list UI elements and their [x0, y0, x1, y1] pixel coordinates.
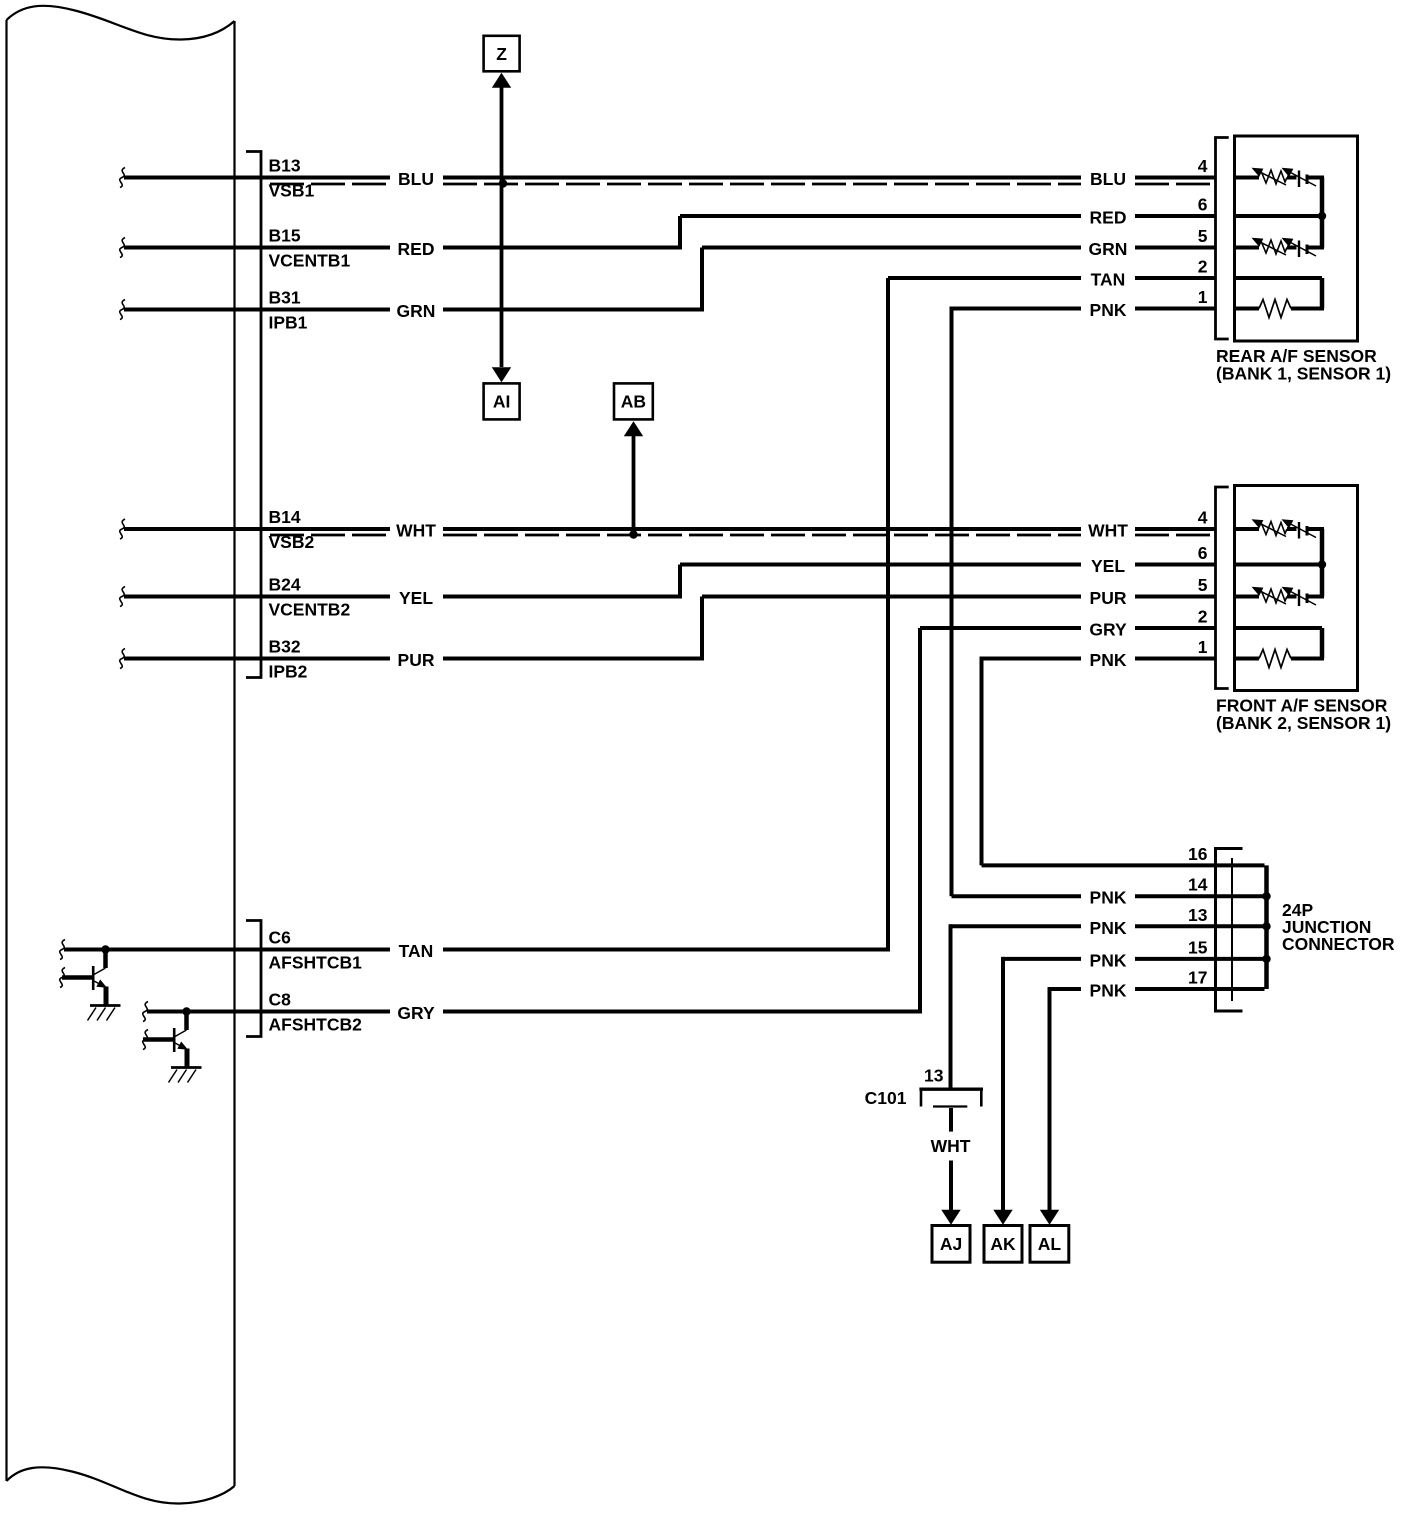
- connector box AL: [1030, 1226, 1069, 1263]
- svg-text:5: 5: [1198, 226, 1208, 246]
- internal bus pin4-pin5: [1320, 529, 1325, 597]
- heater link pin2-pin1: [1320, 628, 1325, 659]
- svg-text:AFSHTCB2: AFSHTCB2: [269, 1015, 363, 1035]
- wire B15 VCENTB1 RED (ECM to rear sensor pin 6): [120, 216, 1215, 258]
- wire C8 AFSHTCB2 GRY (ECM to front sensor pin 2): [143, 628, 1215, 1022]
- wire pin 6: [1235, 214, 1323, 218]
- svg-text:VCENTB1: VCENTB1: [269, 251, 351, 271]
- wire colour labels (component side): [1088, 169, 1128, 1001]
- svg-text:AJ: AJ: [940, 1234, 962, 1254]
- junction dot pin 14: [1262, 892, 1270, 900]
- wire pin 6: [1235, 563, 1323, 567]
- junction dot pin 15: [1262, 955, 1270, 963]
- svg-text:PNK: PNK: [1090, 981, 1127, 1001]
- wire to connectors Z and AI (BLU splice): [492, 73, 511, 383]
- sensor box: [1235, 486, 1358, 691]
- svg-text:PUR: PUR: [1090, 588, 1127, 608]
- svg-text:2: 2: [1198, 257, 1208, 277]
- svg-text:TAN: TAN: [399, 941, 434, 961]
- svg-text:VSB1: VSB1: [269, 181, 315, 201]
- svg-text:CONNECTOR: CONNECTOR: [1282, 934, 1395, 954]
- wire B24 VCENTB2 YEL (ECM to front sensor pin 6): [120, 565, 1215, 607]
- svg-text:AK: AK: [990, 1234, 1016, 1254]
- svg-text:15: 15: [1188, 937, 1208, 957]
- svg-text:2: 2: [1198, 607, 1208, 627]
- pin numbers: [1198, 156, 1208, 307]
- shield dashed line BLU: [270, 183, 390, 186]
- svg-text:4: 4: [1198, 508, 1208, 528]
- svg-text:PNK: PNK: [1090, 300, 1127, 320]
- svg-text:AB: AB: [621, 392, 646, 412]
- svg-text:PNK: PNK: [1090, 888, 1127, 908]
- wire PNK rear sensor pin 1 to junction pin 14: [952, 307, 1265, 897]
- wire pin 2: [1235, 276, 1323, 280]
- wire PNK junction pin 17 to AL: [1040, 987, 1265, 1225]
- splice dot on BLU shield: [499, 179, 507, 187]
- 24P junction connector bracket: [1216, 849, 1243, 1012]
- svg-text:B13: B13: [269, 156, 301, 176]
- sensing cell pin 4: [1235, 515, 1325, 538]
- heater resistor pin 1: [1235, 300, 1325, 318]
- svg-text:6: 6: [1198, 195, 1208, 215]
- connector box AI: [484, 383, 520, 419]
- connector box AJ: [932, 1226, 970, 1263]
- svg-text:GRN: GRN: [397, 301, 436, 321]
- svg-text:PNK: PNK: [1090, 918, 1127, 938]
- sensor connector bracket: [1216, 138, 1229, 340]
- svg-text:(BANK 2, SENSOR 1): (BANK 2, SENSOR 1): [1216, 713, 1391, 733]
- svg-text:BLU: BLU: [398, 169, 434, 189]
- connector box AK: [984, 1226, 1022, 1263]
- svg-text:VSB2: VSB2: [269, 532, 315, 552]
- svg-text:B32: B32: [269, 637, 301, 657]
- wire B32 IPB2 PUR (ECM to front sensor pin 5): [120, 597, 1215, 669]
- svg-text:16: 16: [1188, 844, 1208, 864]
- sensing cell pin 5: [1235, 583, 1325, 606]
- svg-text:AL: AL: [1038, 1234, 1062, 1254]
- svg-text:TAN: TAN: [1091, 270, 1126, 290]
- ECM pin labels: [269, 156, 363, 1035]
- junction dot pin 13: [1262, 922, 1270, 930]
- svg-text:WHT: WHT: [1088, 521, 1128, 541]
- svg-text:14: 14: [1188, 875, 1208, 895]
- svg-text:PNK: PNK: [1090, 650, 1127, 670]
- wire colour labels (ECM side): [396, 169, 436, 1023]
- wire B13 VSB1 BLU (ECM to rear sensor pin 4): [120, 168, 1215, 188]
- shield dashed line WHT: [270, 534, 390, 537]
- label 24P JUNCTION CONNECTOR: [1282, 900, 1395, 954]
- junction dot pin 6: [1318, 560, 1326, 568]
- connector box AB: [614, 383, 653, 419]
- wire to connector AB (WHT splice): [624, 421, 643, 539]
- svg-text:5: 5: [1198, 575, 1208, 595]
- sensor connector bracket: [1216, 487, 1229, 689]
- svg-text:WHT: WHT: [931, 1136, 971, 1156]
- svg-text:B24: B24: [269, 575, 301, 595]
- sensing cell pin 4: [1235, 164, 1325, 187]
- wire B31 IPB1 GRN (ECM to rear sensor pin 5): [120, 248, 1215, 320]
- svg-text:B31: B31: [269, 288, 301, 308]
- pin numbers: [1198, 508, 1208, 658]
- wire PNK junction pin 15 to AK: [993, 957, 1264, 1225]
- transistor Q2 (AFSHTCB2 driver): [143, 1007, 202, 1082]
- ECM body outline (torn column): [7, 6, 235, 1504]
- wire C6 AFSHTCB1 TAN (ECM to rear sensor pin 2): [60, 278, 1215, 960]
- squiggle Q1 base: [60, 968, 65, 988]
- wire PNK junction pin 13 to C101 pin 13: [951, 924, 1265, 1088]
- svg-text:PNK: PNK: [1090, 950, 1127, 970]
- svg-text:RED: RED: [1090, 208, 1127, 228]
- heater resistor pin 1: [1235, 650, 1325, 668]
- svg-text:13: 13: [924, 1066, 944, 1086]
- svg-text:AFSHTCB1: AFSHTCB1: [269, 953, 363, 973]
- svg-text:GRY: GRY: [1089, 620, 1127, 640]
- connector C101 pin 13: [919, 1089, 983, 1106]
- connector box Z: [484, 36, 520, 72]
- svg-text:B15: B15: [269, 226, 301, 246]
- squiggle Q2 base: [143, 1030, 148, 1050]
- svg-text:17: 17: [1188, 968, 1207, 988]
- wire PNK front sensor pin 1 to junction pin 16: [982, 657, 1265, 866]
- svg-text:Z: Z: [496, 44, 507, 64]
- junction dot pin 6: [1318, 212, 1326, 220]
- svg-text:C101: C101: [865, 1088, 907, 1108]
- 24P junction connector pin numbers: [1188, 844, 1208, 988]
- svg-text:GRN: GRN: [1089, 239, 1128, 259]
- svg-text:RED: RED: [398, 239, 435, 259]
- svg-text:WHT: WHT: [396, 521, 436, 541]
- svg-text:YEL: YEL: [1091, 556, 1125, 576]
- ECM connector bracket B: [246, 152, 261, 678]
- transistor Q1 (AFSHTCB1 driver): [62, 945, 121, 1020]
- svg-text:1: 1: [1198, 287, 1208, 307]
- 24P junction connector bus bar: [1262, 865, 1270, 989]
- heater link pin2-pin1: [1320, 278, 1325, 309]
- svg-text:13: 13: [1188, 905, 1208, 925]
- svg-text:VCENTB2: VCENTB2: [269, 600, 351, 620]
- svg-text:AI: AI: [493, 392, 511, 412]
- wire pin 2: [1235, 626, 1323, 630]
- internal bus pin4-pin5: [1320, 178, 1325, 248]
- svg-text:IPB2: IPB2: [269, 662, 308, 682]
- svg-text:C6: C6: [269, 928, 292, 948]
- svg-text:(BANK 1, SENSOR 1): (BANK 1, SENSOR 1): [1216, 364, 1391, 384]
- svg-text:1: 1: [1198, 637, 1208, 657]
- svg-text:GRY: GRY: [397, 1003, 435, 1023]
- svg-text:4: 4: [1198, 156, 1208, 176]
- sensing cell pin 5: [1235, 234, 1325, 257]
- ECM connector bracket C: [246, 921, 261, 1037]
- sensor box: [1235, 136, 1358, 341]
- splice dot on WHT shield: [629, 530, 637, 538]
- svg-text:C8: C8: [269, 990, 292, 1010]
- svg-text:PUR: PUR: [398, 650, 435, 670]
- wire WHT C101 to AJ: [941, 1108, 960, 1225]
- svg-text:BLU: BLU: [1090, 169, 1126, 189]
- 24P junction connector inner wall: [1231, 858, 1233, 1001]
- svg-text:IPB1: IPB1: [269, 313, 308, 333]
- svg-text:B14: B14: [269, 507, 301, 527]
- svg-text:YEL: YEL: [399, 588, 433, 608]
- wire B14 VSB2 WHT (ECM to front sensor pin 4): [120, 519, 1215, 539]
- svg-text:6: 6: [1198, 543, 1208, 563]
